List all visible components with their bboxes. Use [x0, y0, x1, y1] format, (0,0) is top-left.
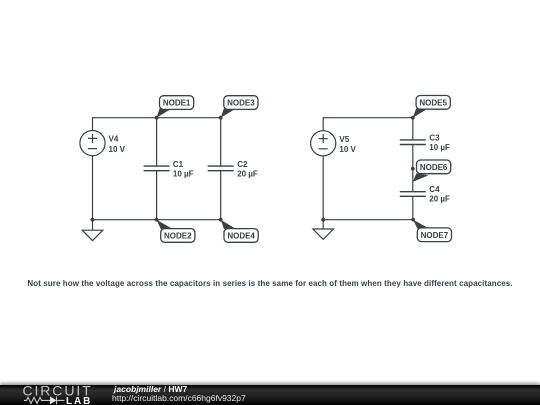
wire C3-C4 middle: [412, 145, 414, 192]
svg-text:20 µF: 20 µF: [429, 195, 450, 204]
junction node4 dot: [219, 218, 223, 222]
node NODE4: [221, 220, 259, 243]
junction node5 dot: [411, 116, 415, 120]
svg-text:NODE5: NODE5: [419, 98, 447, 107]
node NODE5: [413, 96, 451, 118]
svg-text:NODE6: NODE6: [420, 163, 448, 172]
voltage source V4: [80, 131, 105, 156]
C1 value label: [173, 160, 194, 178]
wire left top rail: [93, 118, 221, 131]
C3 value label: [429, 133, 450, 152]
node NODE6: [413, 160, 451, 182]
svg-text:NODE2: NODE2: [164, 232, 192, 241]
V5 value label: [339, 135, 356, 154]
svg-text:NODE1: NODE1: [163, 99, 191, 108]
svg-text:C3: C3: [429, 133, 440, 142]
wire right bottom rail: [323, 156, 413, 219]
svg-text:NODE3: NODE3: [227, 99, 255, 108]
node NODE3: [221, 96, 258, 118]
junction node7 dot: [411, 218, 415, 222]
node NODE7: [413, 220, 451, 242]
svg-text:V4: V4: [109, 135, 119, 144]
capacitor C1: [144, 166, 170, 171]
wire ground stem left: [92, 220, 94, 231]
CircuitLab logo: [22, 385, 112, 405]
wire C1 branch top: [156, 118, 158, 166]
junction node6 dot: [411, 167, 415, 171]
svg-text:10 V: 10 V: [339, 145, 356, 154]
ground left: [82, 230, 103, 240]
node NODE1: [157, 96, 194, 118]
junction node3 dot: [219, 116, 223, 120]
junction ground left dot: [91, 218, 95, 222]
svg-text:C1: C1: [173, 160, 184, 169]
junction node2 dot: [155, 218, 159, 222]
svg-text:10 V: 10 V: [109, 145, 126, 154]
svg-text:C4: C4: [429, 185, 440, 194]
svg-text:LAB: LAB: [66, 396, 92, 405]
wire C4 bottom: [412, 196, 414, 219]
svg-text:C2: C2: [237, 160, 248, 169]
svg-text:V5: V5: [339, 135, 349, 144]
svg-text:10 µF: 10 µF: [173, 169, 194, 178]
V4 value label: [109, 135, 126, 154]
wire C3 top: [412, 118, 414, 140]
capacitor C3: [400, 140, 426, 145]
C2 value label: [237, 160, 258, 178]
junction ground right dot: [321, 218, 325, 222]
C4 value label: [429, 185, 450, 204]
junction node1 dot: [155, 116, 159, 120]
ground right: [313, 229, 334, 239]
wire C2 branch top: [220, 118, 222, 166]
wire left bottom rail: [93, 156, 221, 220]
wire C1 branch bottom: [156, 171, 158, 220]
wire C2 branch bottom: [220, 171, 222, 220]
wire ground stem right: [322, 220, 324, 229]
svg-text:10 µF: 10 µF: [429, 143, 450, 152]
voltage source V5: [311, 131, 336, 156]
svg-text:NODE7: NODE7: [421, 231, 449, 240]
svg-text:NODE4: NODE4: [227, 232, 255, 241]
svg-text:20 µF: 20 µF: [237, 169, 258, 178]
capacitor C4: [400, 192, 426, 197]
node NODE2: [157, 220, 195, 243]
wire right top rail: [323, 118, 413, 131]
capacitor C2: [208, 166, 234, 171]
